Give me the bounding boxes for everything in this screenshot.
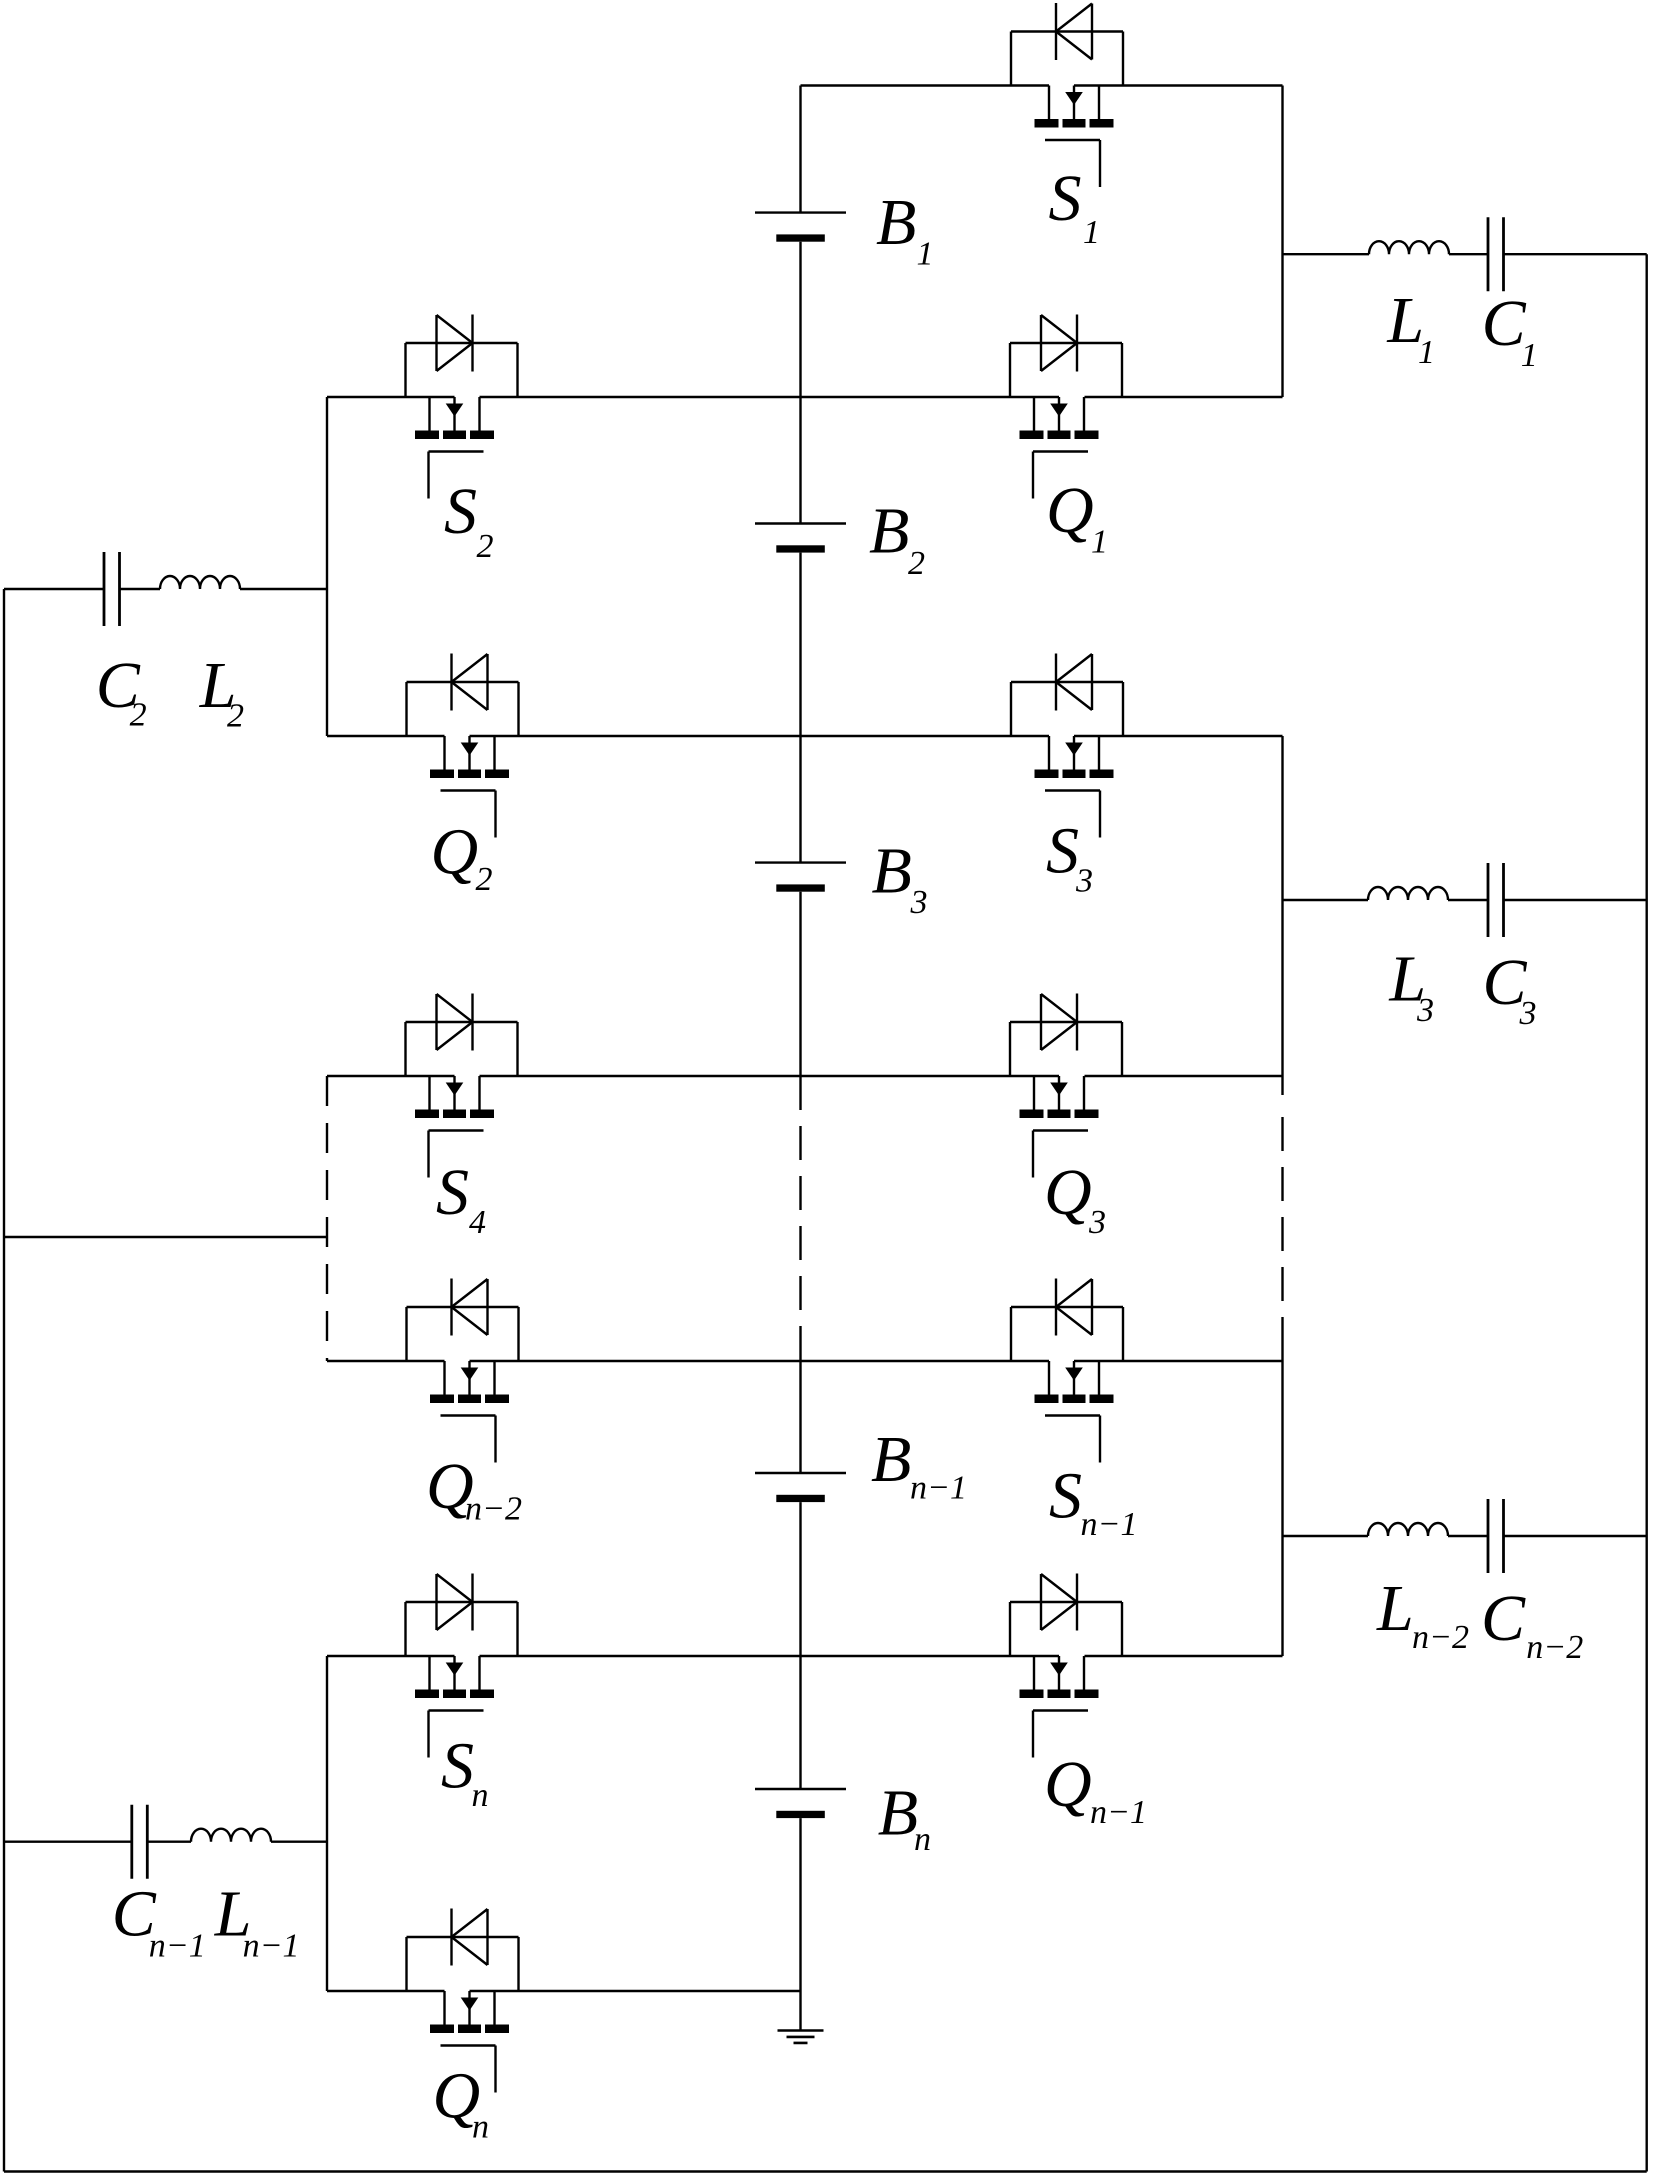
battery Bn-1 — [755, 1473, 846, 1502]
wire battery string segment bus1 to B1 — [799, 86, 801, 213]
wire C2 L2 branch leads — [4, 588, 327, 590]
label Cn-2 — [1481, 1582, 1583, 1666]
svg-text:Q: Q — [1046, 474, 1094, 547]
wire battery string segment bus5 to Bn-1 — [799, 1361, 801, 1473]
svg-text:Q: Q — [431, 816, 479, 889]
svg-text:S: S — [1046, 815, 1079, 888]
svg-text:2: 2 — [477, 528, 494, 565]
battery B1 — [755, 213, 846, 242]
label Qn — [433, 2060, 490, 2146]
svg-text:n: n — [914, 1821, 931, 1858]
label Ln-1 — [214, 1877, 300, 1964]
wire middle left tap (omitted cell branch) — [4, 1236, 327, 1238]
svg-text:1: 1 — [1521, 337, 1538, 374]
svg-text:2: 2 — [908, 545, 925, 582]
svg-text:n−2: n−2 — [1412, 1619, 1469, 1656]
svg-text:B: B — [876, 186, 916, 259]
svg-text:3: 3 — [1416, 992, 1434, 1029]
label Cn-1 — [112, 1877, 206, 1964]
label C1 — [1482, 287, 1538, 374]
wire bus 7 (Qn row, ground node) — [327, 1990, 801, 1992]
svg-text:S: S — [441, 1730, 474, 1803]
label C3 — [1483, 946, 1537, 1032]
label Bn — [878, 1777, 931, 1858]
wire battery string segment B3 to bus 4 — [799, 892, 801, 1076]
transistor Sn-1 (MOSFET with body diode) — [1011, 1279, 1123, 1463]
label S3 — [1046, 815, 1093, 900]
svg-text:3: 3 — [1088, 1204, 1106, 1241]
svg-text:n: n — [472, 1777, 489, 1814]
svg-text:3: 3 — [1075, 863, 1093, 900]
inductor L1 — [1369, 241, 1449, 254]
wire battery string segment Bn to ground — [799, 1818, 801, 2030]
wire right column vertical bus1-bus2 — [1281, 86, 1283, 398]
svg-text:B: B — [871, 1423, 911, 1496]
wire L3 C3 branch leads — [1283, 899, 1647, 901]
wire battery string segment B1 to B2 — [799, 242, 801, 524]
transistor S3 (MOSFET with body diode) — [1011, 654, 1123, 838]
svg-text:Q: Q — [1044, 1748, 1092, 1821]
svg-text:C: C — [1481, 1582, 1526, 1655]
transistor Qn-1 (MOSFET with body diode) — [1010, 1574, 1122, 1758]
label B2 — [869, 495, 925, 583]
label Sn-1 — [1049, 1460, 1137, 1544]
svg-text:1: 1 — [1091, 524, 1108, 561]
transistor Qn-2 (MOSFET with body diode) — [407, 1279, 519, 1463]
svg-text:2: 2 — [227, 698, 244, 735]
label Q3 — [1044, 1156, 1106, 1241]
wire battery string segment B2 to B3 — [799, 553, 801, 863]
svg-text:3: 3 — [910, 884, 928, 921]
wire left column vertical bus2-bus3 — [326, 397, 328, 736]
capacitor Cn-1 — [132, 1805, 148, 1879]
wire bus 1 (S1 row, B1 top node) — [801, 84, 1283, 86]
svg-text:n−1: n−1 — [243, 1928, 300, 1965]
svg-text:2: 2 — [476, 861, 493, 898]
svg-text:n−2: n−2 — [465, 1491, 522, 1528]
inductor L3 — [1368, 887, 1448, 900]
svg-text:n−1: n−1 — [1081, 1506, 1138, 1543]
svg-text:n−1: n−1 — [1090, 1794, 1147, 1831]
label Sn — [441, 1730, 489, 1815]
battery B2 — [755, 524, 846, 553]
capacitor C3 — [1488, 863, 1504, 937]
inductor Ln-1 — [191, 1829, 271, 1842]
transistor Q1 (MOSFET with body diode) — [1010, 315, 1122, 499]
label L1 — [1386, 284, 1435, 371]
transistor Q2 (MOSFET with body diode) — [407, 654, 519, 838]
transistor S2 (MOSFET with body diode) — [406, 315, 518, 499]
wire left column dashed vertical bus4-bus5 (omitted cells) — [326, 1076, 328, 1361]
label S4 — [436, 1156, 486, 1241]
transistor Q3 (MOSFET with body diode) — [1010, 994, 1122, 1178]
wire bus 6 (Sn / Qn-1 row) — [327, 1655, 1283, 1657]
transistor S4 (MOSFET with body diode) — [406, 994, 518, 1178]
label S1 — [1049, 162, 1101, 251]
svg-text:S: S — [436, 1156, 469, 1229]
wire battery string dashed segment bus4 to bus5 (omitted cells) — [799, 1076, 801, 1361]
wire Ln-2 Cn-2 branch leads — [1283, 1535, 1647, 1537]
svg-text:n−1: n−1 — [910, 1470, 967, 1507]
svg-text:Q: Q — [1044, 1156, 1092, 1229]
label Qn-1 — [1044, 1748, 1147, 1831]
capacitor Cn-2 — [1488, 1499, 1504, 1573]
wire right column dashed vertical (omitted cells) — [1281, 1117, 1283, 1347]
label B3 — [872, 835, 928, 922]
svg-text:2: 2 — [130, 697, 147, 734]
wire left column vertical bus6-bus7 — [326, 1656, 328, 1991]
inductor L2 — [160, 576, 240, 589]
svg-text:1: 1 — [1083, 214, 1100, 251]
battery Bn — [755, 1789, 846, 1818]
label Q1 — [1046, 474, 1108, 561]
wire bus 2 (S2 / Q1 row) — [327, 396, 1283, 398]
svg-text:n: n — [472, 2109, 489, 2146]
label Qn-2 — [426, 1450, 522, 1528]
capacitor C2 — [104, 552, 120, 626]
svg-text:3: 3 — [1519, 995, 1537, 1032]
svg-text:S: S — [444, 475, 477, 548]
wire battery string segment Bn-1 to Bn — [799, 1502, 801, 1789]
wire L1 C1 branch leads — [1283, 253, 1647, 255]
wire bus 3 (Q2 / S3 row) — [327, 735, 1283, 737]
label L3 — [1388, 943, 1434, 1030]
svg-text:B: B — [872, 835, 912, 908]
transistor Qn (MOSFET with body diode) — [407, 1909, 519, 2093]
label B1 — [876, 186, 934, 273]
svg-text:n−1: n−1 — [149, 1928, 206, 1965]
svg-text:4: 4 — [469, 1204, 486, 1241]
wire right column vertical bus3 down — [1281, 736, 1283, 1095]
transistor Sn (MOSFET with body diode) — [406, 1574, 518, 1758]
svg-text:L: L — [1376, 1572, 1414, 1645]
svg-text:B: B — [869, 495, 909, 568]
label L2 — [199, 649, 244, 735]
svg-text:1: 1 — [917, 236, 934, 273]
capacitor C1 — [1488, 217, 1504, 291]
inductor Ln-2 — [1368, 1523, 1448, 1536]
svg-text:1: 1 — [1418, 334, 1435, 371]
svg-text:S: S — [1049, 162, 1082, 235]
wire Cn-1 Ln-1 branch leads — [4, 1840, 327, 1842]
transistor S1 (MOSFET with body diode) — [1011, 3, 1123, 187]
wire left rail — [3, 589, 5, 2172]
wire bus 4 (S4 / Q3 row) — [327, 1075, 1283, 1077]
wire right rail — [1645, 254, 1647, 2171]
svg-text:n−2: n−2 — [1526, 1629, 1583, 1666]
ground — [778, 2031, 824, 2043]
label C2 — [96, 649, 147, 734]
battery B3 — [755, 863, 846, 892]
label Q2 — [431, 816, 493, 899]
svg-text:B: B — [878, 1777, 918, 1850]
wire right column vertical to bus6 — [1281, 1347, 1283, 1656]
wire bus 5 (Qn-2 / Sn-1 row) — [327, 1360, 1283, 1362]
label Bn-1 — [871, 1423, 967, 1507]
label S2 — [444, 475, 494, 565]
label Ln-2 — [1376, 1572, 1469, 1656]
wire bottom rail — [4, 2170, 1647, 2172]
svg-text:S: S — [1049, 1460, 1082, 1533]
